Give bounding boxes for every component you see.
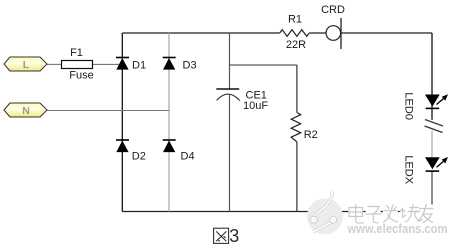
svg-text:Fuse: Fuse xyxy=(69,70,93,82)
svg-text:D1: D1 xyxy=(132,59,146,71)
svg-text:D4: D4 xyxy=(181,151,195,163)
svg-text:22R: 22R xyxy=(286,39,306,51)
svg-text:D2: D2 xyxy=(132,151,146,163)
svg-text:3: 3 xyxy=(229,226,239,246)
svg-text:R1: R1 xyxy=(288,14,302,26)
svg-text:L: L xyxy=(23,59,30,71)
svg-text:10uF: 10uF xyxy=(243,100,268,112)
svg-text:LEDX: LEDX xyxy=(403,155,415,184)
svg-text:D3: D3 xyxy=(183,59,197,71)
svg-text:www.elecfans.com: www.elecfans.com xyxy=(347,221,448,236)
svg-text:F1: F1 xyxy=(70,47,83,59)
svg-text:CRD: CRD xyxy=(321,4,345,16)
svg-text:R2: R2 xyxy=(304,129,318,141)
svg-text:LED0: LED0 xyxy=(403,92,415,120)
svg-text:N: N xyxy=(22,105,30,117)
